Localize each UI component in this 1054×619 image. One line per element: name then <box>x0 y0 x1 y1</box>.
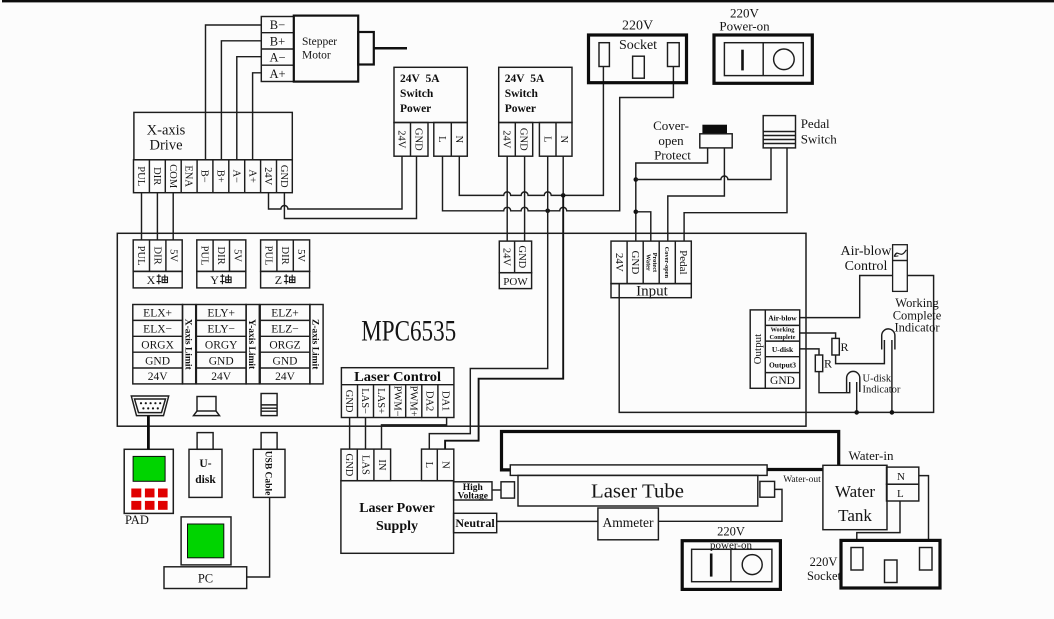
U-disk indicator lamp <box>847 371 860 392</box>
Y-axis limit block <box>196 305 259 384</box>
svg-text:ORGY: ORGY <box>205 340 238 352</box>
page top border <box>2 0 1054 2</box>
svg-text:GND: GND <box>517 128 528 151</box>
svg-text:Air-blow: Air-blow <box>768 313 797 322</box>
svg-text:GND: GND <box>209 355 234 367</box>
svg-text:ELX+: ELX+ <box>143 308 172 320</box>
wire cover-open terminal up to protect switch right pin <box>668 148 725 241</box>
X-axis drive box <box>134 112 292 159</box>
svg-text:MPC6535: MPC6535 <box>361 315 456 348</box>
svg-text:GND: GND <box>273 355 298 367</box>
water tank <box>823 465 887 529</box>
wire PSU2 24V down to POW <box>506 156 508 241</box>
svg-text:Laser Control: Laser Control <box>354 370 441 385</box>
wire R1 to working lamp left leg <box>836 340 885 364</box>
svg-text:Ammeter: Ammeter <box>603 515 654 530</box>
stepper motor terminal block <box>261 17 294 82</box>
USB port icon <box>261 394 277 416</box>
svg-text:Indicator: Indicator <box>894 321 940 335</box>
svg-text:DIR: DIR <box>151 247 162 265</box>
wire tank L to socket left slot <box>857 501 900 540</box>
svg-text:Complete: Complete <box>770 334 796 341</box>
svg-text:Supply: Supply <box>376 519 418 534</box>
svg-text:Stepper: Stepper <box>302 36 337 48</box>
svg-text:Motor: Motor <box>302 50 331 62</box>
wire B- stepper to drive <box>206 25 262 160</box>
svg-text:Water: Water <box>835 482 875 501</box>
wire PSU2 L down to bus <box>547 156 549 211</box>
wire drive 24V to PSU1 24V with hop <box>269 156 403 209</box>
svg-text:Cover-: Cover- <box>653 118 689 133</box>
svg-text:PC: PC <box>198 571 213 585</box>
svg-text:Water: Water <box>645 254 652 271</box>
DB9 connector icon <box>131 396 168 416</box>
U-disk device <box>189 433 222 498</box>
svg-text:PWM+: PWM+ <box>407 386 418 417</box>
PAD device <box>124 449 173 527</box>
svg-text:24V: 24V <box>148 371 169 383</box>
laser power supply box <box>341 481 454 554</box>
wire neutral to ammeter <box>497 520 598 522</box>
svg-text:Voltage: Voltage <box>458 492 488 502</box>
220V power-on switch (bottom) <box>682 541 780 590</box>
svg-text:X-axis: X-axis <box>147 123 186 139</box>
POW terminal block 24V GND <box>499 241 531 289</box>
svg-text:220V: 220V <box>717 524 745 538</box>
ammeter <box>598 508 659 540</box>
svg-text:5V: 5V <box>295 249 306 262</box>
Output terminal block <box>750 310 800 388</box>
wire R2 to U-disk lamp left leg <box>819 372 850 393</box>
Y axis connector block Y-zhou <box>197 240 246 288</box>
water pipe loop over tube <box>502 432 839 470</box>
svg-text:GND: GND <box>770 375 795 387</box>
Laser Control block <box>341 368 454 418</box>
svg-text:ELX−: ELX− <box>143 324 172 336</box>
svg-text:24V: 24V <box>500 248 511 267</box>
svg-text:PUL: PUL <box>135 246 146 266</box>
svg-text:U-disk: U-disk <box>863 374 892 385</box>
svg-text:A−: A− <box>230 169 241 183</box>
working lamp right leg to bus <box>891 340 893 412</box>
svg-text:COM: COM <box>167 164 178 189</box>
svg-text:B−: B− <box>270 18 285 32</box>
svg-text:Y: Y <box>210 273 219 287</box>
svg-text:Air-blow: Air-blow <box>840 244 892 259</box>
svg-text:ELZ−: ELZ− <box>271 324 299 336</box>
220V power-on switch (top) <box>714 5 812 83</box>
MPC6535 main board outline <box>117 233 806 426</box>
wire DA1 to laser PSU IN <box>382 418 447 450</box>
svg-text:Protect: Protect <box>651 253 658 273</box>
svg-text:Control: Control <box>845 259 888 274</box>
laser tube body <box>518 475 758 506</box>
Z-axis limit block <box>260 305 323 384</box>
stepper motor body <box>294 16 358 82</box>
svg-text:24V 5A: 24V 5A <box>400 73 440 85</box>
svg-text:Water-out: Water-out <box>783 475 821 485</box>
laser PSU terminals GND LAS IN <box>341 449 391 481</box>
wire U-disk row to R2 <box>800 349 819 355</box>
working complete indicator lamp <box>882 329 895 350</box>
junction dot PSU2 N on N bus <box>561 193 566 198</box>
svg-text:A+: A+ <box>269 67 285 81</box>
wire PSU2 N down to bus <box>562 156 564 195</box>
svg-text:Drive: Drive <box>149 138 182 154</box>
wire tank N to socket right slot <box>919 476 929 541</box>
PC base <box>164 567 247 589</box>
wire L riser down to laser PSU L terminal <box>429 211 547 449</box>
svg-text:Pedal: Pedal <box>677 250 689 274</box>
svg-text:PUL: PUL <box>135 166 146 186</box>
svg-text:L: L <box>423 462 434 468</box>
junction dot working lamp on bus <box>890 410 895 415</box>
PSU2 terminals 24V GND L N <box>499 123 572 157</box>
N bus: PSU1 N - PSU2 N - 220V socket left slot, hops over verticals <box>459 67 603 196</box>
svg-text:X: X <box>147 273 156 287</box>
svg-text:24V 5A: 24V 5A <box>505 73 545 85</box>
svg-text:L: L <box>436 136 447 142</box>
svg-text:Switch: Switch <box>400 88 434 100</box>
wire working-complete row to R1 <box>800 333 836 338</box>
junction dot PSU2 L on L bus <box>545 209 550 214</box>
svg-text:24V: 24V <box>262 167 273 186</box>
junction dot U-disk lamp on bus <box>854 410 859 415</box>
USB cable device <box>253 433 285 498</box>
shaft line <box>374 47 407 50</box>
X-axis drive terminal row PUL DIR COM ENA B- B+ A- A+ 24V GND <box>134 160 293 193</box>
wire DIR down to board <box>156 193 158 240</box>
svg-text:R: R <box>824 357 832 371</box>
pedal switch <box>763 116 837 148</box>
24V loop bus: input 24V - bottom bus - right riser - air-blow row <box>619 276 933 413</box>
junction dot GND riser lower <box>634 210 639 215</box>
svg-text:X-axis Limit: X-axis Limit <box>182 319 192 371</box>
air-blow control component <box>893 245 908 292</box>
svg-text:B+: B+ <box>215 170 226 183</box>
svg-text:DA1: DA1 <box>440 391 451 411</box>
svg-text:ELZ+: ELZ+ <box>271 308 299 320</box>
24V 5A switch power PSU1 <box>394 67 467 122</box>
PC monitor <box>181 517 231 565</box>
svg-text:ELY+: ELY+ <box>207 308 235 320</box>
svg-text:Z: Z <box>275 273 282 287</box>
svg-text:24V: 24V <box>500 130 511 149</box>
svg-text:POW: POW <box>503 276 528 288</box>
svg-text:24V: 24V <box>613 253 625 272</box>
svg-text:DIR: DIR <box>151 167 162 185</box>
svg-text:N: N <box>897 471 905 483</box>
svg-text:ORGZ: ORGZ <box>269 340 300 352</box>
svg-text:L: L <box>542 136 553 142</box>
wire GND branch to pedal switch left leg with hop <box>636 148 771 180</box>
svg-text:PUL: PUL <box>263 246 274 266</box>
svg-text:Laser Power: Laser Power <box>359 501 435 516</box>
svg-text:5V: 5V <box>231 249 242 262</box>
svg-text:LAS+: LAS+ <box>375 388 386 414</box>
wire PC to USB cable <box>247 497 270 577</box>
svg-text:L: L <box>897 488 904 500</box>
svg-text:GND: GND <box>516 246 527 269</box>
svg-text:Power: Power <box>400 103 431 115</box>
svg-text:Power-on: Power-on <box>719 19 770 34</box>
resistor R2 <box>815 355 822 372</box>
svg-text:N: N <box>453 136 464 144</box>
svg-text:GND: GND <box>343 454 354 477</box>
svg-text:Switch: Switch <box>801 132 838 147</box>
stepper motor shaft <box>358 32 374 65</box>
resistor R1 <box>832 338 839 355</box>
svg-text:Z-axis Limit: Z-axis Limit <box>310 319 320 370</box>
svg-text:U-disk: U-disk <box>772 345 794 354</box>
wire input GND up to cover-open protect left pin <box>636 148 708 241</box>
svg-text:GND: GND <box>278 165 289 188</box>
wire DB9 to PAD <box>147 416 150 450</box>
svg-text:Cover-open: Cover-open <box>663 247 670 279</box>
wire A- stepper to drive <box>237 57 261 160</box>
svg-text:ORGX: ORGX <box>141 340 174 352</box>
cover-open protect switch <box>653 118 732 163</box>
HV connector box at tube left <box>501 482 515 498</box>
wire drive GND to PSU1 GND <box>284 156 416 218</box>
svg-text:disk: disk <box>195 474 216 486</box>
svg-text:Working: Working <box>771 327 796 334</box>
laser tube top strip <box>510 465 767 476</box>
24V 5A switch power PSU2 <box>499 67 572 122</box>
svg-text:PUL: PUL <box>199 246 210 266</box>
svg-text:GND: GND <box>343 390 354 413</box>
keyboard icon <box>194 397 220 416</box>
wire PSU2 GND down to POW <box>524 156 526 241</box>
svg-text:open: open <box>658 133 684 148</box>
L bus: PSU1 L - PSU2 L - 220V socket right slot, hops over verticals <box>443 67 674 211</box>
wire pedal terminal up to pedal switch right leg <box>684 148 787 241</box>
laser PSU terminals L N <box>422 449 454 481</box>
svg-text:24V: 24V <box>396 130 407 149</box>
svg-text:Input: Input <box>636 284 668 300</box>
svg-text:A−: A− <box>269 51 285 65</box>
svg-text:A+: A+ <box>246 169 257 183</box>
svg-text:GND: GND <box>145 355 170 367</box>
svg-text:Laser Tube: Laser Tube <box>591 481 684 503</box>
svg-text:Switch: Switch <box>505 88 539 100</box>
svg-text:220V: 220V <box>622 19 653 34</box>
neutral label box <box>454 513 497 532</box>
svg-text:PAD: PAD <box>125 513 149 527</box>
wire B+ stepper to drive <box>221 41 261 160</box>
220V socket (top) <box>589 19 687 83</box>
tank N terminal <box>887 467 919 484</box>
wire GND branch jumper to water-protect terminal <box>636 212 651 241</box>
svg-text:PWM−: PWM− <box>391 386 402 417</box>
svg-text:LAS: LAS <box>360 455 371 475</box>
wire high voltage to connector <box>492 489 501 491</box>
svg-text:R: R <box>841 340 849 354</box>
svg-text:GND: GND <box>413 128 424 151</box>
svg-text:DA2: DA2 <box>424 391 435 411</box>
Input terminal block <box>611 241 691 299</box>
svg-text:Output: Output <box>752 334 764 365</box>
svg-text:Y-axis Limit: Y-axis Limit <box>246 319 256 370</box>
svg-text:IN: IN <box>376 459 387 470</box>
svg-text:Indicator: Indicator <box>863 385 901 396</box>
wire laser control GND down <box>349 418 351 450</box>
tank L terminal <box>887 484 919 501</box>
svg-text:Socket: Socket <box>807 569 842 583</box>
svg-text:B+: B+ <box>270 34 285 48</box>
svg-text:220V: 220V <box>810 555 838 569</box>
X axis connector block X-zhou <box>133 240 182 288</box>
junction dot GND riser upper <box>634 177 639 182</box>
svg-text:Power: Power <box>505 103 536 115</box>
svg-text:5V: 5V <box>168 249 179 262</box>
svg-text:LAS−: LAS− <box>359 388 370 414</box>
svg-text:Pedal: Pedal <box>801 116 830 131</box>
svg-text:Tank: Tank <box>838 506 872 525</box>
svg-text:ELY−: ELY− <box>207 324 235 336</box>
anode box at tube right <box>760 481 775 497</box>
svg-text:N: N <box>439 461 450 469</box>
U-disk lamp right leg to bus <box>856 382 858 412</box>
wire anode to ammeter <box>658 489 782 521</box>
svg-text:power-on: power-on <box>710 540 752 552</box>
svg-text:24V: 24V <box>211 371 232 383</box>
X-axis limit block <box>133 305 196 384</box>
svg-text:Protect: Protect <box>654 148 691 163</box>
wire laser control LAS- down <box>365 418 367 450</box>
svg-text:USB Cable: USB Cable <box>262 451 272 496</box>
wire PUL down to board <box>141 193 143 240</box>
svg-text:Output3: Output3 <box>769 360 796 369</box>
wire COM down to board <box>172 193 174 240</box>
Z axis connector block Z-zhou <box>261 240 310 288</box>
svg-text:Socket: Socket <box>619 38 657 53</box>
PSU1 terminals 24V GND L N <box>394 123 467 157</box>
svg-text:GND: GND <box>629 250 641 274</box>
svg-text:ENA: ENA <box>183 165 194 187</box>
svg-text:DIR: DIR <box>215 247 226 265</box>
svg-text:24V: 24V <box>275 371 296 383</box>
svg-text:B−: B− <box>199 170 210 183</box>
svg-text:U-: U- <box>199 458 211 470</box>
svg-text:Neutral: Neutral <box>455 516 495 530</box>
wire N riser down to laser PSU N terminal <box>445 195 563 449</box>
high voltage label box <box>454 482 492 502</box>
220V socket (bottom) <box>841 540 940 588</box>
water-out pipe to tank <box>767 468 823 471</box>
svg-text:DIR: DIR <box>279 247 290 265</box>
wire A+ stepper to drive <box>253 73 262 160</box>
svg-text:N: N <box>558 136 569 144</box>
svg-text:Water-in: Water-in <box>849 448 894 463</box>
